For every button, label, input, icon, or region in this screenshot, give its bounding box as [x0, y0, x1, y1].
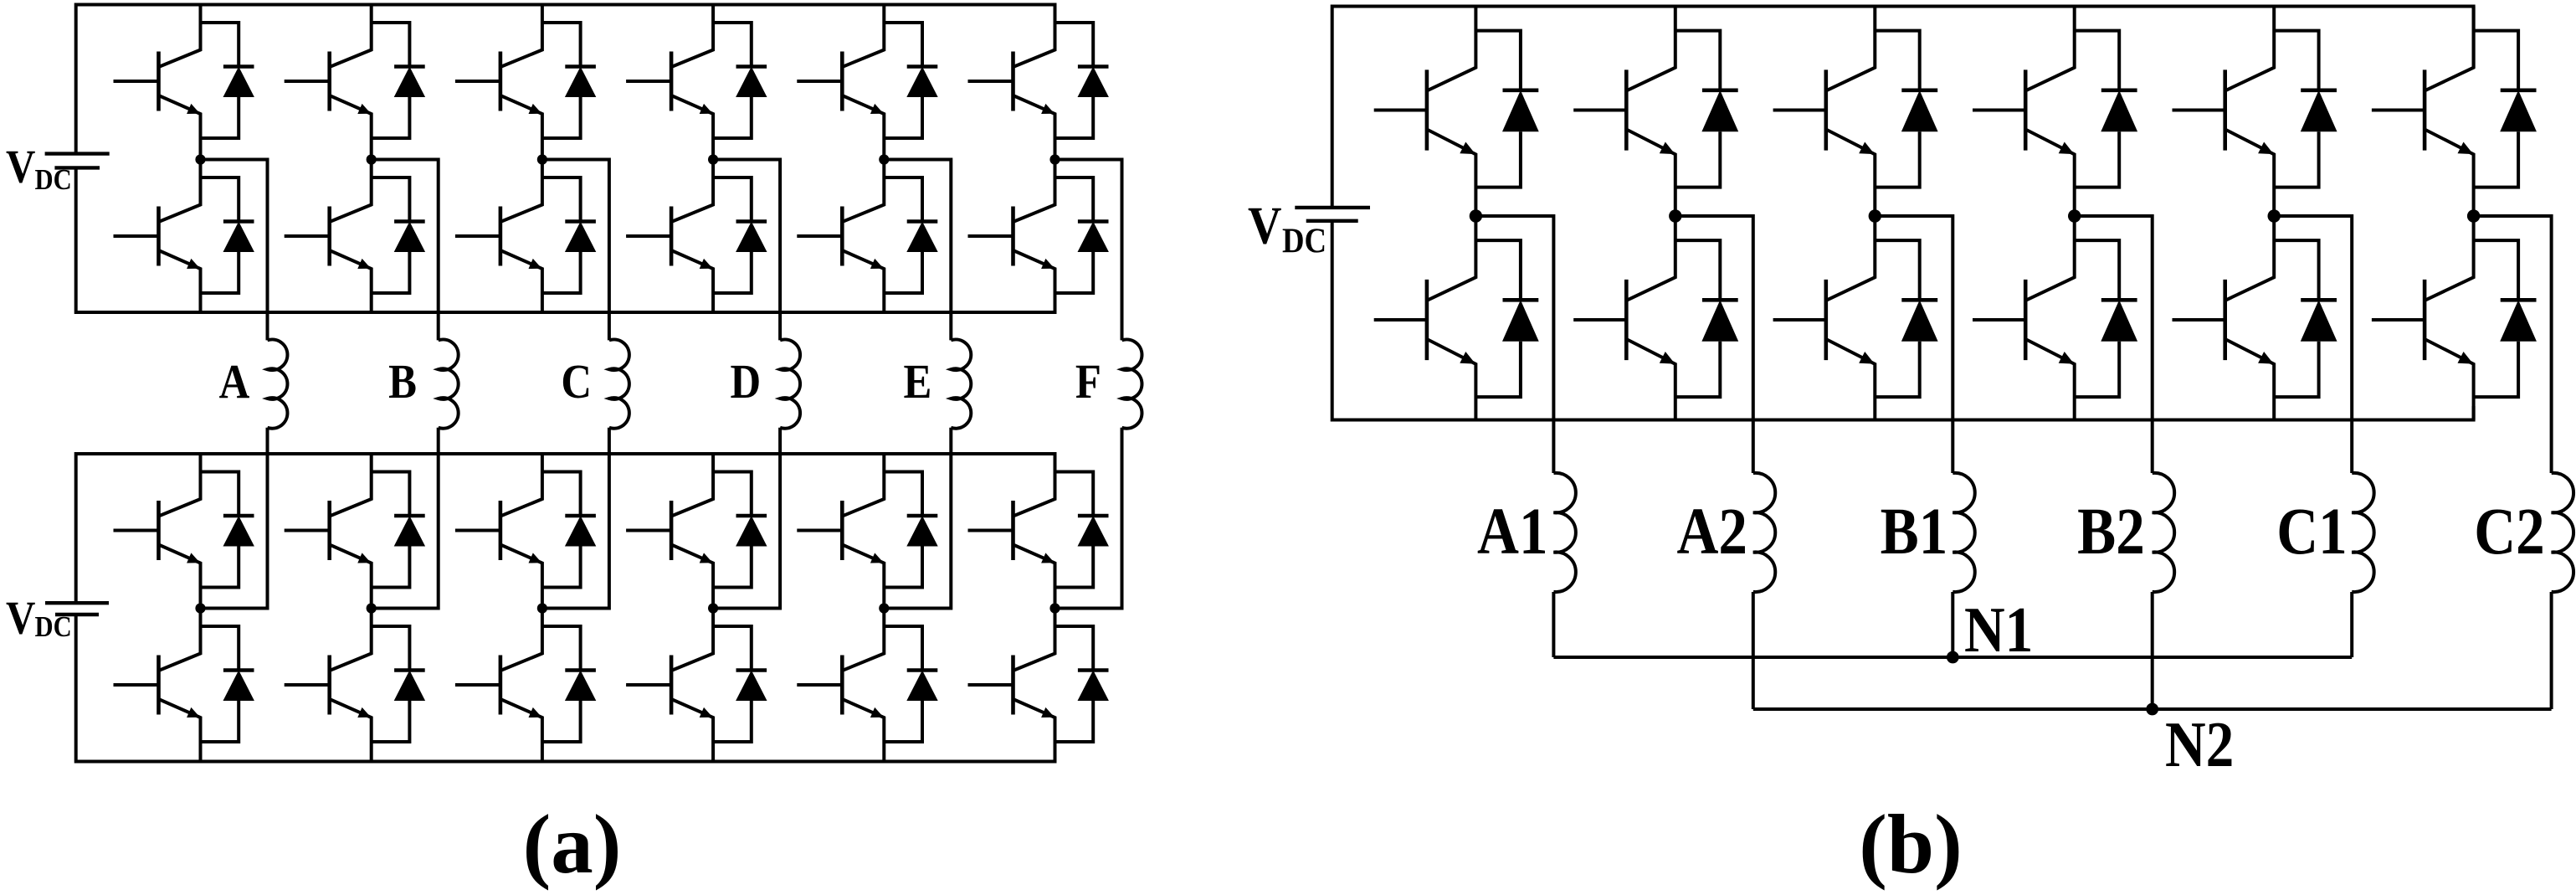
transistor Q36 (lower, leg C2): [2372, 216, 2474, 420]
diode D9: [884, 23, 937, 138]
diode D18: [542, 626, 596, 742]
diode D19: [713, 472, 767, 588]
wire negative rail inverter (b): [1332, 221, 2474, 420]
diode D33: [2274, 31, 2337, 188]
transistor Q19 (upper, leg D bottom inverter): [626, 454, 713, 609]
node leg C1 midpoint: [2268, 209, 2281, 222]
svg-text:DC: DC: [35, 164, 72, 196]
transistor Q2 (lower, leg A top inverter): [114, 160, 201, 313]
diode D31: [2075, 31, 2137, 188]
diode D32: [2075, 240, 2137, 397]
diode D36: [2474, 240, 2537, 397]
svg-text:(b): (b): [1859, 797, 1962, 891]
diode D20: [713, 626, 767, 742]
inductor C1: [2352, 473, 2373, 592]
svg-text:DC: DC: [1282, 221, 1326, 260]
transistor Q22 (lower, leg E bottom inverter): [797, 609, 884, 762]
transistor Q4 (lower, leg B top inverter): [285, 160, 372, 313]
diode D16: [372, 626, 425, 742]
diode D29: [1875, 31, 1937, 188]
transistor Q20 (lower, leg D bottom inverter): [626, 609, 713, 762]
svg-text:DC: DC: [35, 611, 72, 643]
node N1: [1947, 651, 1959, 664]
diode D8: [713, 177, 767, 293]
svg-text:A2: A2: [1676, 496, 1747, 568]
diode D14: [201, 626, 254, 742]
transistor Q3 (upper, leg B top inverter): [285, 5, 372, 160]
svg-text:(a): (a): [523, 797, 622, 891]
node leg C midpoint top inverter: [537, 154, 547, 164]
svg-text:B2: B2: [2077, 496, 2145, 568]
svg-text:F: F: [1075, 354, 1101, 409]
diode D10: [884, 177, 937, 293]
node leg B1 midpoint: [1869, 209, 1881, 222]
wire phase B1 upper lead: [1875, 216, 1953, 473]
wire phase C lower lead: [542, 428, 609, 609]
wire phase B upper lead: [372, 160, 439, 341]
diode D24: [1055, 626, 1109, 742]
node leg B2 midpoint: [2068, 209, 2081, 222]
transistor Q33 (upper, leg C1): [2173, 7, 2275, 217]
diode D26: [1475, 240, 1538, 397]
wire phase F lower lead: [1055, 428, 1122, 609]
diode D13: [201, 472, 254, 588]
battery VDC2: [45, 603, 109, 615]
wire phase C2 lower lead: [2550, 592, 2553, 709]
node leg A midpoint top inverter: [195, 154, 205, 164]
diode D17: [542, 472, 596, 588]
node leg F midpoint top inverter: [1049, 154, 1060, 164]
node leg E midpoint bottom inverter: [879, 603, 889, 613]
battery VDC3: [1295, 208, 1370, 221]
wire positive rail bottom inverter (a): [76, 454, 1055, 603]
diode D6: [542, 177, 596, 293]
diode D28: [1675, 240, 1738, 397]
svg-text:D: D: [730, 354, 761, 409]
diode D30: [1875, 240, 1937, 397]
node leg E midpoint top inverter: [879, 154, 889, 164]
svg-text:B: B: [388, 354, 417, 409]
inductor A: [268, 340, 288, 429]
wire phase C1 lower lead: [2350, 592, 2353, 657]
diode D15: [372, 472, 425, 588]
transistor Q27 (upper, leg A2): [1573, 7, 1675, 217]
svg-text:V: V: [1248, 196, 1281, 255]
wire phase A upper lead: [201, 160, 268, 341]
diode D27: [1675, 31, 1738, 188]
wire phase B2 upper lead: [2075, 216, 2153, 473]
inductor B2: [2153, 473, 2174, 592]
diode D12: [1055, 177, 1109, 293]
inductor A1: [1553, 473, 1575, 592]
transistor Q34 (lower, leg C1): [2173, 216, 2275, 420]
transistor Q11 (upper, leg F top inverter): [968, 5, 1055, 160]
inductor F: [1122, 340, 1142, 429]
wire phase C1 upper lead: [2274, 216, 2352, 473]
wire phase D upper lead: [713, 160, 780, 341]
wire phase C upper lead: [542, 160, 609, 341]
node N2: [2146, 703, 2158, 716]
wire phase A2 upper lead: [1675, 216, 1753, 473]
inductor E: [951, 340, 971, 429]
transistor Q6 (lower, leg C top inverter): [455, 160, 542, 313]
transistor Q26 (lower, leg A1): [1374, 216, 1476, 420]
diode D2: [201, 177, 254, 293]
transistor Q32 (lower, leg B2): [1973, 216, 2075, 420]
transistor Q21 (upper, leg E bottom inverter): [797, 454, 884, 609]
node leg A1 midpoint: [1470, 209, 1482, 222]
transistor Q14 (lower, leg A bottom inverter): [114, 609, 201, 762]
node leg A2 midpoint: [1669, 209, 1681, 222]
transistor Q16 (lower, leg B bottom inverter): [285, 609, 372, 762]
transistor Q29 (upper, leg B1): [1773, 7, 1876, 217]
inductor D: [780, 340, 800, 429]
diode D35: [2474, 31, 2537, 188]
transistor Q28 (lower, leg A2): [1573, 216, 1675, 420]
node leg D midpoint top inverter: [708, 154, 718, 164]
node leg F midpoint bottom inverter: [1049, 603, 1060, 613]
diode D7: [713, 23, 767, 138]
svg-text:E: E: [903, 354, 931, 409]
inductor C: [609, 340, 629, 429]
transistor Q9 (upper, leg E top inverter): [797, 5, 884, 160]
transistor Q7 (upper, leg D top inverter): [626, 5, 713, 160]
node leg C midpoint bottom inverter: [537, 603, 547, 613]
svg-text:A: A: [219, 354, 250, 409]
inductor B1: [1953, 473, 1974, 592]
diode D11: [1055, 23, 1109, 138]
diode D3: [372, 23, 425, 138]
diode D1: [201, 23, 254, 138]
transistor Q31 (upper, leg B2): [1973, 7, 2075, 217]
wire neutral N2 bus: [1753, 707, 2552, 711]
svg-text:B1: B1: [1881, 496, 1948, 568]
battery VDC1: [45, 154, 110, 168]
wire negative rail top inverter (a): [76, 167, 1055, 312]
wire phase A1 upper lead: [1475, 216, 1553, 473]
inductor C2: [2552, 473, 2573, 592]
node leg C2 midpoint: [2467, 209, 2480, 222]
svg-text:C1: C1: [2276, 496, 2347, 568]
transistor Q5 (upper, leg C top inverter): [455, 5, 542, 160]
transistor Q8 (lower, leg D top inverter): [626, 160, 713, 313]
transistor Q12 (lower, leg F top inverter): [968, 160, 1055, 313]
wire phase A2 lower lead: [1752, 592, 1755, 709]
transistor Q1 (upper, leg A top inverter): [114, 5, 201, 160]
transistor Q23 (upper, leg F bottom inverter): [968, 454, 1055, 609]
svg-text:C2: C2: [2474, 496, 2544, 568]
wire positive rail inverter (b): [1332, 7, 2474, 208]
wire phase B2 lower lead: [2151, 592, 2154, 709]
wire phase B lower lead: [372, 428, 439, 609]
diode D23: [1055, 472, 1109, 588]
wire neutral N1 bus: [1553, 656, 2352, 659]
diode D5: [542, 23, 596, 138]
transistor Q18 (lower, leg C bottom inverter): [455, 609, 542, 762]
transistor Q17 (upper, leg C bottom inverter): [455, 454, 542, 609]
svg-text:N1: N1: [1964, 594, 2033, 666]
wire phase D lower lead: [713, 428, 780, 609]
transistor Q10 (lower, leg E top inverter): [797, 160, 884, 313]
inductor A2: [1753, 473, 1775, 592]
transistor Q30 (lower, leg B1): [1773, 216, 1876, 420]
svg-text:A1: A1: [1477, 496, 1547, 568]
node leg B midpoint top inverter: [367, 154, 377, 164]
transistor Q35 (upper, leg C2): [2372, 7, 2474, 217]
wire phase E lower lead: [884, 428, 951, 609]
diode D21: [884, 472, 937, 588]
wire phase E upper lead: [884, 160, 951, 341]
diode D25: [1475, 31, 1538, 188]
svg-text:N2: N2: [2165, 709, 2234, 780]
node leg A midpoint bottom inverter: [195, 603, 205, 613]
transistor Q24 (lower, leg F bottom inverter): [968, 609, 1055, 762]
wire phase F upper lead: [1055, 160, 1122, 341]
svg-text:V: V: [6, 141, 35, 193]
node leg B midpoint bottom inverter: [367, 603, 377, 613]
svg-text:C: C: [561, 354, 592, 409]
node leg D midpoint bottom inverter: [708, 603, 718, 613]
transistor Q13 (upper, leg A bottom inverter): [114, 454, 201, 609]
transistor Q15 (upper, leg B bottom inverter): [285, 454, 372, 609]
diode D22: [884, 626, 937, 742]
wire phase C2 upper lead: [2474, 216, 2552, 473]
svg-text:V: V: [6, 593, 35, 645]
inductor B: [439, 340, 459, 429]
wire phase B1 lower lead: [1951, 592, 1954, 657]
wire positive rail top inverter (a): [76, 5, 1055, 154]
transistor Q25 (upper, leg A1): [1374, 7, 1476, 217]
diode D34: [2274, 240, 2337, 397]
wire negative rail bottom inverter (a): [76, 615, 1055, 762]
diode D4: [372, 177, 425, 293]
wire phase A lower lead: [201, 428, 268, 609]
wire phase A1 lower lead: [1552, 592, 1555, 657]
